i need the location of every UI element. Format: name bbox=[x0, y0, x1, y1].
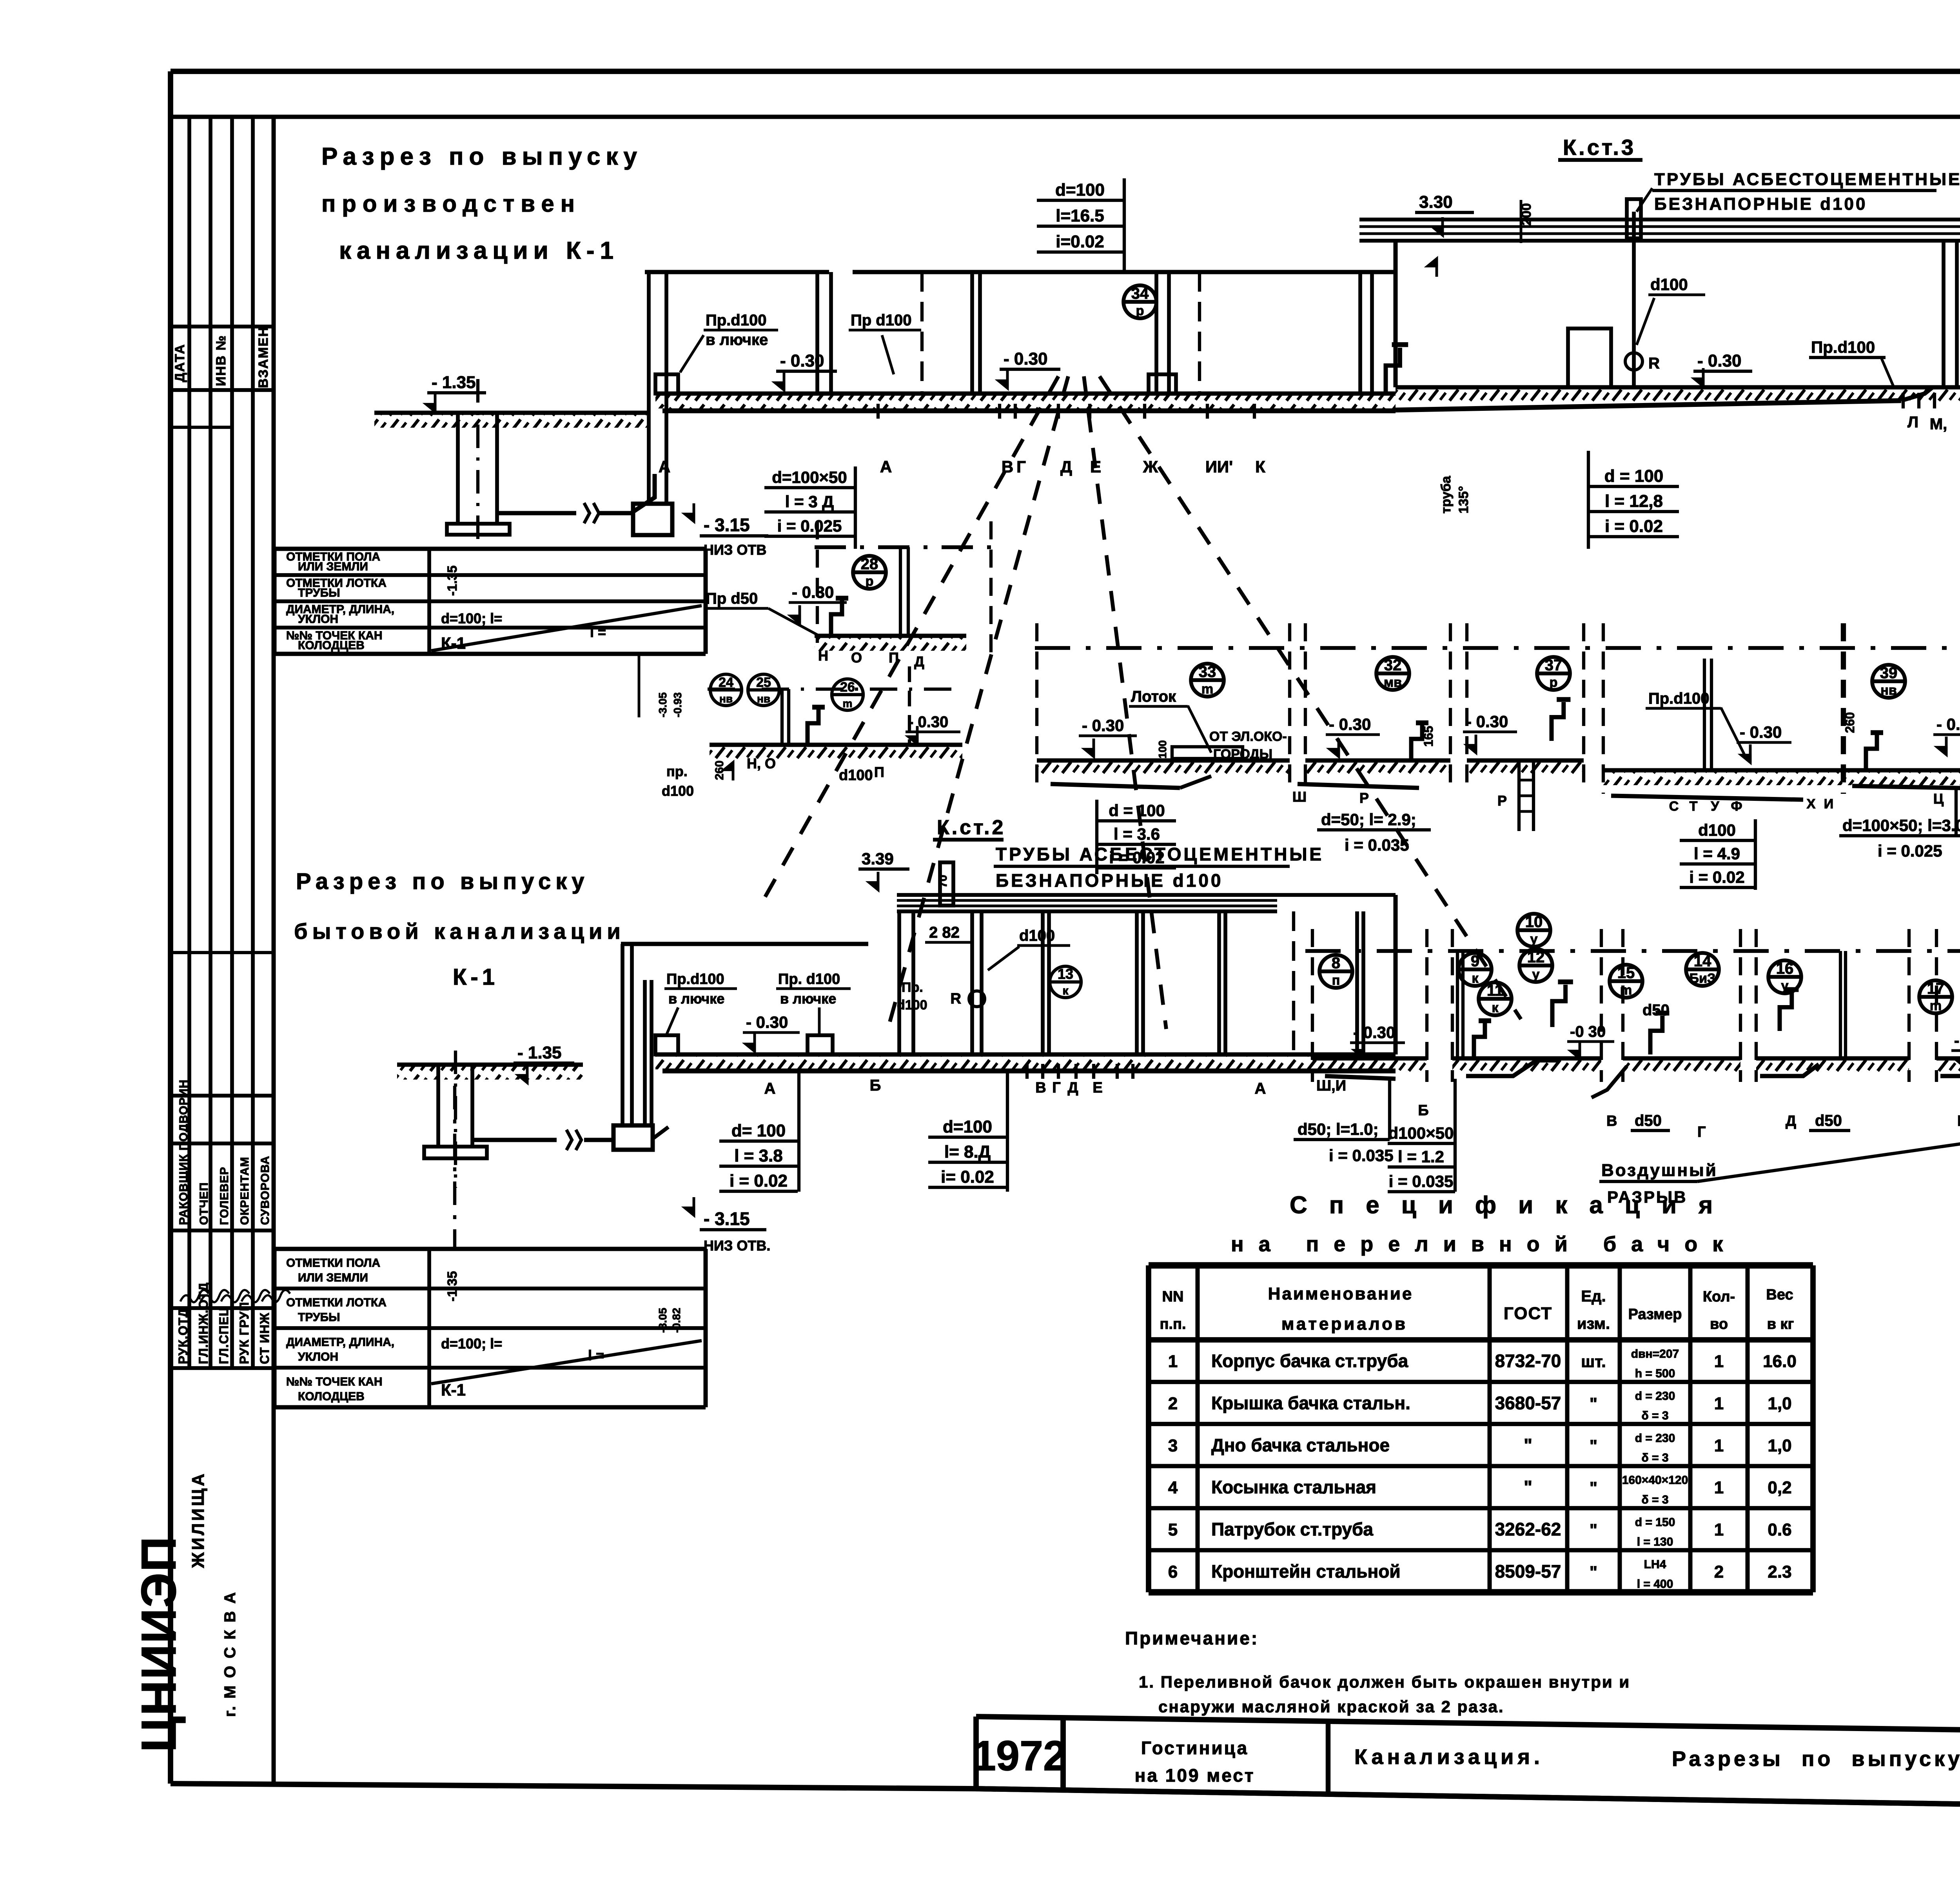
svg-text:3262-62: 3262-62 bbox=[1495, 1519, 1561, 1539]
svg-text:- 0.30: - 0.30 bbox=[1082, 716, 1124, 735]
svg-text:d100×50: d100×50 bbox=[1388, 1124, 1454, 1142]
svg-text:ИЛИ ЗЕМЛИ: ИЛИ ЗЕМЛИ bbox=[298, 560, 368, 573]
svg-text:Пр d100: Пр d100 bbox=[851, 312, 911, 329]
svg-text:Пр. d100: Пр. d100 bbox=[778, 971, 840, 987]
svg-text:Х: Х bbox=[1807, 797, 1816, 811]
svg-text:у: у bbox=[1530, 932, 1538, 947]
svg-text:к: к bbox=[1062, 984, 1069, 997]
svg-text:Спецификация: Спецификация bbox=[1290, 1192, 1735, 1219]
svg-text:ОТМЕТКИ ПОЛА: ОТМЕТКИ ПОЛА bbox=[286, 1256, 380, 1269]
svg-text:на переливной бачок: на переливной бачок bbox=[1231, 1232, 1738, 1256]
svg-text:в лючке: в лючке bbox=[780, 991, 836, 1007]
svg-text:Гостиница: Гостиница bbox=[1141, 1738, 1249, 1758]
svg-text:А: А bbox=[880, 457, 892, 476]
svg-text:нв: нв bbox=[719, 693, 733, 705]
svg-text:- 0.30: - 0.30 bbox=[1954, 1032, 1960, 1049]
svg-text:труба: труба bbox=[1439, 475, 1454, 514]
svg-text:17: 17 bbox=[1927, 980, 1945, 997]
svg-text:26: 26 bbox=[840, 680, 855, 695]
svg-text:- 0.30: - 0.30 bbox=[1740, 723, 1782, 741]
svg-text:Ц: Ц bbox=[1933, 791, 1944, 807]
svg-text:m: m bbox=[843, 697, 853, 710]
svg-text:l =: l = bbox=[590, 624, 606, 640]
svg-text:-0 30: -0 30 bbox=[1570, 1023, 1606, 1040]
svg-text:ВЗАМЕН: ВЗАМЕН bbox=[256, 326, 271, 388]
svg-text:-0.82: -0.82 bbox=[670, 1308, 682, 1333]
svg-text:на 109 мест: на 109 мест bbox=[1135, 1765, 1255, 1786]
svg-text:2: 2 bbox=[1168, 1394, 1178, 1413]
svg-text:Разрез по выпуску: Разрез по выпуску bbox=[296, 869, 589, 894]
svg-text:Пр d50: Пр d50 bbox=[706, 590, 758, 607]
svg-text:РУК.ОТД: РУК.ОТД bbox=[176, 1308, 190, 1364]
svg-text:4: 4 bbox=[1168, 1478, 1178, 1497]
svg-text:к: к bbox=[1492, 1000, 1499, 1015]
svg-text:d100: d100 bbox=[1019, 927, 1055, 944]
svg-text:- 3.15: - 3.15 bbox=[704, 515, 750, 535]
svg-text:ТРУБЫ АСБЕСТОЦЕМЕНТНЫЕ: ТРУБЫ АСБЕСТОЦЕМЕНТНЫЕ bbox=[996, 844, 1324, 864]
svg-text:нв: нв bbox=[1880, 683, 1896, 698]
svg-text:3.30: 3.30 bbox=[1419, 192, 1453, 212]
svg-text:Л: Л bbox=[1907, 414, 1918, 431]
svg-text:i = 0.035: i = 0.035 bbox=[1329, 1146, 1394, 1165]
svg-text:ОТ ЭЛ.ОКО-: ОТ ЭЛ.ОКО- bbox=[1209, 729, 1287, 744]
svg-text:l = 12,8: l = 12,8 bbox=[1605, 492, 1663, 511]
svg-text:d50; l=1.0;: d50; l=1.0; bbox=[1298, 1120, 1379, 1138]
svg-text:5: 5 bbox=[1168, 1520, 1178, 1539]
svg-text:Разрез по выпуску: Разрез по выпуску bbox=[321, 143, 642, 170]
svg-text:- 0.30: - 0.30 bbox=[908, 713, 948, 731]
svg-text:9: 9 bbox=[1471, 953, 1479, 970]
svg-text:100: 100 bbox=[1156, 740, 1169, 759]
svg-text:Пр.d100: Пр.d100 bbox=[1648, 690, 1709, 707]
svg-text:Косынка стальная: Косынка стальная bbox=[1211, 1477, 1376, 1497]
svg-text:1: 1 bbox=[1714, 1520, 1724, 1539]
svg-text:ОТМЕТКИ ЛОТКА: ОТМЕТКИ ЛОТКА bbox=[286, 1296, 387, 1309]
svg-text:Дно бачка стальное: Дно бачка стальное bbox=[1211, 1435, 1390, 1455]
svg-text:1. Переливной бачок должен: 1. Переливной бачок должен быть окрашен … bbox=[1139, 1673, 1630, 1691]
svg-text:d = 100: d = 100 bbox=[1604, 466, 1663, 486]
svg-text:i= 0.02: i= 0.02 bbox=[941, 1167, 994, 1187]
svg-text:Пр.d100: Пр.d100 bbox=[706, 312, 766, 329]
svg-text:БиЗ: БиЗ bbox=[1690, 971, 1716, 986]
svg-text:НИЗ ОТВ: НИЗ ОТВ bbox=[704, 542, 766, 558]
svg-text:28: 28 bbox=[861, 555, 878, 573]
svg-text:0.6: 0.6 bbox=[1768, 1520, 1791, 1539]
svg-text:нв: нв bbox=[757, 693, 770, 705]
svg-text:6: 6 bbox=[1168, 1562, 1178, 1581]
svg-text:РАКОВЩИК ПОДВОРИН: РАКОВЩИК ПОДВОРИН bbox=[177, 1080, 190, 1225]
svg-text:Кронштейн стальной: Кронштейн стальной bbox=[1211, 1561, 1401, 1581]
svg-text:": " bbox=[1590, 1479, 1597, 1497]
svg-text:Патрубок ст.труба: Патрубок ст.труба bbox=[1211, 1519, 1373, 1539]
svg-text:- 0.30: - 0.30 bbox=[792, 583, 834, 601]
svg-text:ГЛ.ИНЖ.ОТД: ГЛ.ИНЖ.ОТД bbox=[196, 1282, 211, 1364]
svg-text:l = 3.6: l = 3.6 bbox=[1114, 825, 1160, 843]
svg-text:в кг: в кг bbox=[1767, 1316, 1794, 1332]
svg-text:Пр.d100: Пр.d100 bbox=[666, 971, 724, 987]
svg-text:d50: d50 bbox=[1635, 1112, 1662, 1129]
svg-text:l=16.5: l=16.5 bbox=[1056, 206, 1104, 225]
svg-text:Кол-: Кол- bbox=[1703, 1288, 1735, 1305]
svg-text:1: 1 bbox=[1168, 1352, 1178, 1371]
svg-text:16: 16 bbox=[1776, 960, 1794, 977]
svg-text:1: 1 bbox=[1714, 1478, 1724, 1497]
svg-text:m: m bbox=[1930, 998, 1942, 1013]
svg-text:l= 8.Д: l= 8.Д bbox=[944, 1142, 991, 1161]
svg-text:3680-57: 3680-57 bbox=[1495, 1393, 1561, 1413]
svg-text:- 0.30: - 0.30 bbox=[1936, 715, 1960, 733]
svg-text:d50: d50 bbox=[1815, 1112, 1842, 1129]
svg-text:i = 0.025: i = 0.025 bbox=[777, 517, 842, 535]
svg-text:в лючке: в лючке bbox=[668, 991, 724, 1007]
svg-text:8: 8 bbox=[1332, 955, 1340, 972]
svg-text:К-1: К-1 bbox=[441, 1381, 466, 1399]
svg-text:- 1.35: - 1.35 bbox=[517, 1043, 562, 1062]
svg-text:1972: 1972 bbox=[973, 1732, 1067, 1779]
svg-text:производствен: производствен bbox=[321, 191, 581, 217]
svg-text:d=100×50; l=3.0: d=100×50; l=3.0 bbox=[1842, 816, 1960, 835]
svg-text:dвн=207: dвн=207 bbox=[1631, 1348, 1679, 1361]
svg-text:135°: 135° bbox=[1456, 486, 1471, 514]
svg-text:В: В bbox=[1606, 1113, 1617, 1129]
svg-text:п: п bbox=[1332, 973, 1340, 988]
svg-text:": " bbox=[1524, 1477, 1532, 1497]
svg-text:П: П bbox=[874, 764, 884, 780]
svg-text:34: 34 bbox=[1131, 285, 1149, 302]
svg-text:во: во bbox=[1710, 1316, 1728, 1332]
svg-text:Д: Д bbox=[1067, 1080, 1078, 1096]
svg-text:d = 230: d = 230 bbox=[1635, 1390, 1675, 1403]
svg-text:Корпус бачка ст.труба: Корпус бачка ст.труба bbox=[1211, 1351, 1408, 1371]
svg-text:ИЛИ ЗЕМЛИ: ИЛИ ЗЕМЛИ bbox=[298, 1271, 368, 1284]
svg-text:В: В bbox=[1035, 1080, 1046, 1096]
svg-text:- 0.30: - 0.30 bbox=[1004, 349, 1048, 368]
svg-text:Н: Н bbox=[818, 648, 828, 664]
svg-text:ДИАМЕТР, ДЛИНА,: ДИАМЕТР, ДЛИНА, bbox=[286, 1336, 394, 1348]
svg-text:1: 1 bbox=[1714, 1352, 1724, 1371]
svg-text:ИНВ №: ИНВ № bbox=[214, 335, 229, 386]
svg-text:П: П bbox=[889, 650, 899, 666]
svg-text:ОТЧЕП: ОТЧЕП bbox=[198, 1182, 211, 1225]
svg-text:i = 0.035: i = 0.035 bbox=[1345, 836, 1409, 854]
svg-text:32: 32 bbox=[1384, 657, 1402, 674]
svg-text:у: у bbox=[1532, 967, 1540, 982]
svg-text:мв: мв bbox=[1384, 675, 1402, 690]
svg-text:l = 4.9: l = 4.9 bbox=[1694, 844, 1740, 863]
svg-text:1: 1 bbox=[1714, 1394, 1724, 1413]
svg-text:- 0.30: - 0.30 bbox=[1466, 712, 1508, 731]
svg-text:Размер: Размер bbox=[1628, 1306, 1682, 1323]
svg-text:Г: Г bbox=[1052, 1080, 1061, 1096]
svg-text:-0.93: -0.93 bbox=[671, 692, 684, 717]
svg-text:К-1: К-1 bbox=[453, 964, 499, 990]
svg-text:Ш: Ш bbox=[1292, 789, 1307, 805]
svg-text:11: 11 bbox=[1487, 982, 1503, 999]
svg-text:ОКРЕНТАМ: ОКРЕНТАМ bbox=[238, 1157, 251, 1225]
svg-text:d100: d100 bbox=[662, 783, 694, 799]
svg-text:И: И bbox=[1205, 457, 1217, 476]
svg-text:Пр.d100: Пр.d100 bbox=[1811, 338, 1875, 356]
svg-text:δ = 3: δ = 3 bbox=[1641, 1451, 1668, 1464]
svg-text:Ф: Ф bbox=[1731, 799, 1742, 814]
svg-text:R: R bbox=[951, 991, 961, 1007]
svg-text:- 3.15: - 3.15 bbox=[704, 1209, 750, 1229]
svg-text:Б: Б bbox=[1418, 1102, 1428, 1119]
svg-text:СТ ИНЖ: СТ ИНЖ bbox=[258, 1312, 272, 1364]
svg-text:И': И' bbox=[1217, 457, 1233, 476]
svg-text:Г: Г bbox=[1697, 1124, 1706, 1140]
svg-text:ЦНИИЭП: ЦНИИЭП bbox=[132, 1536, 186, 1752]
svg-text:-1.35: -1.35 bbox=[445, 1271, 460, 1302]
svg-text:14: 14 bbox=[1694, 953, 1711, 970]
svg-text:-3.05: -3.05 bbox=[657, 1308, 669, 1333]
svg-text:УКЛОН: УКЛОН bbox=[298, 1350, 338, 1363]
svg-text:ДАТА: ДАТА bbox=[172, 344, 187, 382]
svg-text:- 0.30: - 0.30 bbox=[1353, 1023, 1395, 1042]
svg-text:Д: Д bbox=[1060, 457, 1072, 476]
svg-text:КОЛОДЦЕВ: КОЛОДЦЕВ bbox=[298, 1390, 365, 1403]
svg-text:i = 0.035: i = 0.035 bbox=[1389, 1172, 1454, 1190]
svg-text:И: И bbox=[1824, 797, 1833, 811]
svg-text:25: 25 bbox=[756, 675, 771, 690]
svg-text:": " bbox=[1524, 1435, 1532, 1455]
svg-text:РУК ГРУП: РУК ГРУП bbox=[237, 1302, 251, 1364]
svg-text:К.ст.3: К.ст.3 bbox=[1563, 135, 1636, 160]
svg-text:d=100: d=100 bbox=[1055, 180, 1105, 200]
svg-text:- 0.30: - 0.30 bbox=[1329, 715, 1371, 733]
svg-text:1,0: 1,0 bbox=[1768, 1436, 1791, 1455]
svg-text:ТРУБЫ АСБЕСТОЦЕМЕНТНЫЕ: ТРУБЫ АСБЕСТОЦЕМЕНТНЫЕ bbox=[1654, 170, 1960, 189]
svg-text:Н, О: Н, О bbox=[747, 755, 776, 771]
svg-text:Ш,И: Ш,И bbox=[1316, 1078, 1346, 1094]
svg-text:снаружи масляной краской: снаружи масляной краской за 2 раза. bbox=[1158, 1697, 1504, 1716]
svg-text:пр.: пр. bbox=[666, 763, 688, 779]
svg-text:-3.05: -3.05 bbox=[657, 692, 669, 717]
svg-text:l = 130: l = 130 bbox=[1637, 1535, 1673, 1548]
svg-text:13: 13 bbox=[1058, 966, 1073, 982]
svg-text:р: р bbox=[866, 574, 874, 589]
svg-text:l = 3.8: l = 3.8 bbox=[734, 1146, 783, 1165]
svg-text:Крышка бачка стальн.: Крышка бачка стальн. bbox=[1211, 1393, 1410, 1413]
svg-text:l = 3 Д: l = 3 Д bbox=[785, 492, 834, 511]
svg-text:d100: d100 bbox=[839, 767, 873, 784]
svg-text:О: О bbox=[851, 650, 862, 666]
svg-text:М,: М, bbox=[1930, 416, 1947, 433]
svg-text:12: 12 bbox=[1527, 949, 1545, 966]
svg-text:i = 0.02: i = 0.02 bbox=[1689, 868, 1744, 886]
svg-text:изм.: изм. bbox=[1577, 1315, 1610, 1332]
svg-text:NN: NN bbox=[1162, 1288, 1184, 1305]
svg-text:2.3: 2.3 bbox=[1768, 1562, 1791, 1581]
svg-text:2: 2 bbox=[1714, 1562, 1724, 1581]
svg-text:К: К bbox=[1255, 457, 1265, 476]
svg-text:Р: Р bbox=[1359, 790, 1369, 806]
svg-text:А: А bbox=[764, 1080, 776, 1097]
svg-text:Наименование: Наименование bbox=[1268, 1284, 1414, 1303]
svg-text:24: 24 bbox=[719, 675, 733, 690]
svg-text:Г: Г bbox=[1016, 457, 1026, 476]
svg-text:в лючке: в лючке bbox=[706, 331, 768, 348]
svg-text:К.ст.2: К.ст.2 bbox=[937, 816, 1005, 839]
svg-text:материалов: материалов bbox=[1281, 1314, 1408, 1334]
svg-text:15: 15 bbox=[1617, 964, 1635, 982]
svg-text:ТРУБЫ: ТРУБЫ bbox=[298, 586, 340, 599]
svg-text:УКЛОН: УКЛОН bbox=[298, 613, 338, 626]
svg-text:260: 260 bbox=[1843, 712, 1857, 733]
svg-text:m: m bbox=[1201, 682, 1213, 697]
svg-text:8732-70: 8732-70 bbox=[1495, 1351, 1561, 1371]
svg-text:-1.35: -1.35 bbox=[445, 566, 460, 596]
svg-text:m: m bbox=[1620, 983, 1632, 998]
svg-text:": " bbox=[1590, 1436, 1597, 1455]
svg-text:ГЛ.СПЕЦ: ГЛ.СПЕЦ bbox=[217, 1307, 231, 1364]
svg-text:БЕЗНАПОРНЫЕ d100: БЕЗНАПОРНЫЕ d100 bbox=[996, 870, 1223, 891]
svg-text:d= 100: d= 100 bbox=[731, 1121, 786, 1140]
svg-text:р: р bbox=[1136, 303, 1144, 318]
svg-text:3.39: 3.39 bbox=[862, 849, 894, 868]
svg-text:d = 230: d = 230 bbox=[1635, 1432, 1675, 1445]
svg-text:Р: Р bbox=[1497, 793, 1507, 809]
svg-text:d=50; l= 2.9;: d=50; l= 2.9; bbox=[1321, 810, 1416, 829]
svg-text:l = 1.2: l = 1.2 bbox=[1398, 1147, 1444, 1166]
svg-text:Ед.: Ед. bbox=[1581, 1288, 1606, 1305]
svg-text:d100: d100 bbox=[1698, 821, 1736, 839]
svg-text:0,2: 0,2 bbox=[1768, 1478, 1791, 1497]
svg-text:г. М О С К В А: г. М О С К В А bbox=[221, 1591, 239, 1717]
svg-text:": " bbox=[1590, 1521, 1597, 1539]
svg-text:37: 37 bbox=[1545, 657, 1563, 674]
svg-text:канализации К-1: канализации К-1 bbox=[339, 237, 619, 264]
svg-text:Воздушный: Воздушный bbox=[1601, 1161, 1718, 1180]
svg-text:- 0.30: - 0.30 bbox=[780, 351, 824, 370]
svg-text:": " bbox=[1590, 1563, 1597, 1581]
svg-text:Б: Б bbox=[870, 1077, 881, 1094]
svg-text:ГОЛЕВЕР: ГОЛЕВЕР bbox=[218, 1167, 231, 1225]
svg-text:16.0: 16.0 bbox=[1763, 1352, 1797, 1371]
svg-text:l = 400: l = 400 bbox=[1637, 1577, 1673, 1590]
svg-text:d = 100: d = 100 bbox=[1109, 801, 1165, 820]
svg-text:ЖИЛИЩА: ЖИЛИЩА bbox=[189, 1471, 208, 1568]
svg-text:Вес: Вес bbox=[1766, 1287, 1793, 1303]
svg-text:": " bbox=[1590, 1394, 1597, 1413]
svg-text:К-1: К-1 bbox=[441, 634, 466, 652]
svg-text:У: У bbox=[1711, 799, 1719, 814]
svg-text:i = 0.025: i = 0.025 bbox=[1878, 842, 1942, 860]
svg-text:шт.: шт. bbox=[1581, 1352, 1606, 1371]
svg-text:d100: d100 bbox=[897, 998, 927, 1013]
svg-text:№№ ТОЧЕК КАН: №№ ТОЧЕК КАН bbox=[286, 1375, 383, 1388]
svg-text:ТРУБЫ: ТРУБЫ bbox=[298, 1311, 340, 1324]
svg-text:R: R bbox=[1648, 355, 1660, 372]
svg-text:Разрезы по выпуску К-1.: Разрезы по выпуску К-1. bbox=[1672, 1747, 1960, 1771]
svg-text:1,0: 1,0 bbox=[1768, 1394, 1791, 1413]
svg-text:Е: Е bbox=[1093, 1080, 1102, 1096]
svg-text:33: 33 bbox=[1199, 663, 1216, 681]
svg-text:НИЗ ОТВ.: НИЗ ОТВ. bbox=[704, 1238, 770, 1254]
svg-text:d=100×50: d=100×50 bbox=[772, 468, 847, 486]
svg-text:Т: Т bbox=[1690, 799, 1698, 814]
svg-text:δ = 3: δ = 3 bbox=[1641, 1409, 1668, 1422]
svg-text:i = 0.02: i = 0.02 bbox=[1605, 517, 1663, 536]
svg-text:Д: Д bbox=[914, 653, 924, 670]
svg-text:Е: Е bbox=[1957, 1113, 1960, 1129]
svg-text:10: 10 bbox=[1525, 913, 1543, 931]
svg-text:2 82: 2 82 bbox=[929, 924, 960, 941]
svg-text:d=100; l=: d=100; l= bbox=[441, 610, 502, 626]
svg-text:h = 500: h = 500 bbox=[1635, 1367, 1675, 1380]
svg-text:i=0.02: i=0.02 bbox=[1056, 232, 1104, 251]
svg-text:БЕЗНАПОРНЫЕ d100: БЕЗНАПОРНЫЕ d100 bbox=[1654, 194, 1867, 214]
svg-text:Пр.: Пр. bbox=[902, 980, 923, 995]
svg-text:С: С bbox=[1669, 799, 1679, 814]
svg-text:ГОСТ: ГОСТ bbox=[1504, 1304, 1552, 1323]
svg-text:d100: d100 bbox=[1650, 275, 1688, 294]
svg-text:бытовой канализации: бытовой канализации bbox=[294, 919, 625, 944]
svg-text:δ = 3: δ = 3 bbox=[1641, 1494, 1668, 1506]
svg-text:d=100: d=100 bbox=[943, 1117, 992, 1136]
svg-text:i = 0.02: i = 0.02 bbox=[730, 1171, 788, 1190]
svg-text:160×40×120: 160×40×120 bbox=[1622, 1474, 1688, 1487]
svg-text:Лоток: Лоток bbox=[1131, 688, 1176, 705]
svg-text:LH4: LH4 bbox=[1644, 1558, 1666, 1571]
svg-text:- 0.30: - 0.30 bbox=[746, 1013, 788, 1031]
svg-text:к: к bbox=[1472, 971, 1479, 986]
svg-text:Д: Д bbox=[1786, 1113, 1796, 1129]
svg-text:Примечание:: Примечание: bbox=[1125, 1628, 1259, 1648]
svg-text:3: 3 bbox=[1168, 1436, 1178, 1455]
svg-text:п.п.: п.п. bbox=[1160, 1316, 1186, 1332]
svg-text:d = 150: d = 150 bbox=[1635, 1516, 1675, 1529]
svg-text:39: 39 bbox=[1880, 664, 1898, 682]
svg-text:КОЛОДЦЕВ: КОЛОДЦЕВ bbox=[298, 639, 365, 652]
svg-text:Ж: Ж bbox=[1143, 457, 1158, 476]
svg-text:А: А bbox=[1255, 1080, 1266, 1097]
svg-text:1: 1 bbox=[1714, 1436, 1724, 1455]
svg-text:Канализация.: Канализация. bbox=[1354, 1745, 1544, 1769]
svg-text:СУВОРОВА: СУВОРОВА bbox=[259, 1156, 272, 1225]
svg-text:р: р bbox=[1550, 675, 1558, 690]
svg-text:d50: d50 bbox=[1642, 1002, 1670, 1019]
svg-text:А: А bbox=[659, 457, 670, 476]
svg-text:- 1.35: - 1.35 bbox=[432, 373, 476, 392]
svg-text:- 0.30: - 0.30 bbox=[1697, 351, 1742, 370]
svg-text:d=100; l=: d=100; l= bbox=[441, 1336, 502, 1352]
svg-text:8509-57: 8509-57 bbox=[1495, 1561, 1561, 1581]
